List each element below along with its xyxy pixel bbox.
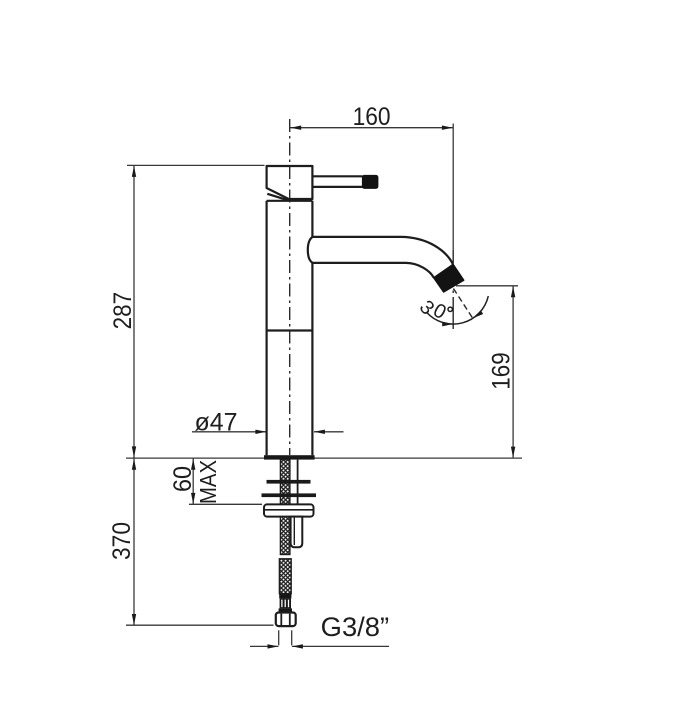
svg-text:287: 287 xyxy=(109,292,137,330)
svg-text:160: 160 xyxy=(353,103,391,131)
svg-text:ø47: ø47 xyxy=(195,409,238,437)
svg-text:G3/8”: G3/8” xyxy=(321,612,390,642)
svg-text:60: 60 xyxy=(169,466,197,492)
svg-text:MAX: MAX xyxy=(195,460,221,504)
svg-text:370: 370 xyxy=(108,522,136,560)
svg-text:169: 169 xyxy=(488,352,516,390)
